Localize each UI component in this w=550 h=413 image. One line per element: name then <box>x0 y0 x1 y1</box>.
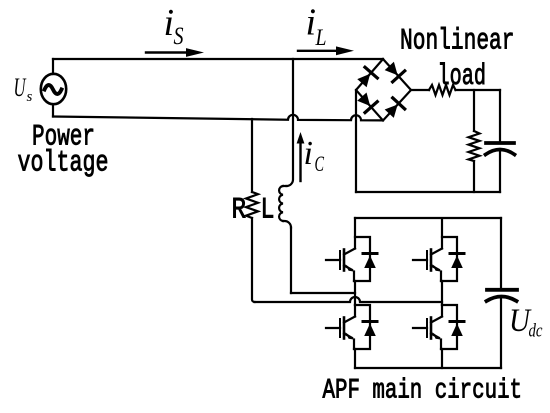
resistor load R <box>469 131 480 161</box>
capacitor Udc <box>487 290 518 368</box>
IGBT V1 (upper-left) <box>326 218 355 281</box>
wire right leg mid <box>441 281 443 305</box>
svg-text:S: S <box>174 23 184 50</box>
arrow iC <box>297 132 305 181</box>
diode V2 antiparallel <box>441 237 464 281</box>
wire load cap top <box>499 90 501 142</box>
diode V1 antiparallel <box>354 237 377 281</box>
svg-text:APF main circuit: APF main circuit <box>323 376 523 407</box>
svg-text:Nonlinear: Nonlinear <box>400 25 515 59</box>
svg-text:U: U <box>14 73 27 102</box>
inductor L <box>279 186 291 228</box>
label Udc <box>509 303 543 342</box>
wire bridge DC top rail <box>355 217 501 219</box>
wire left leg mid <box>354 281 356 305</box>
diode V4 antiparallel <box>441 305 464 349</box>
wire R branch top <box>251 119 253 192</box>
svg-text:i: i <box>164 2 175 44</box>
wire R branch down <box>252 218 255 302</box>
svg-text:L: L <box>315 25 327 51</box>
wire bridge left vertex to load bottom rail <box>355 90 357 192</box>
IGBT V4 (lower-right) <box>413 305 442 349</box>
wire load R branch bottom <box>473 161 475 192</box>
capacitor load C <box>486 143 515 192</box>
label Nonlinear load <box>400 25 515 94</box>
wire source bottom stub <box>52 104 54 116</box>
wire load bottom rail <box>356 191 500 193</box>
wire L branch down <box>290 228 292 294</box>
resistor series (load) <box>429 85 456 95</box>
IGBT V2 (upper-right) <box>413 219 442 281</box>
wire source top stub <box>52 59 54 74</box>
wire right leg bottom <box>441 349 443 368</box>
wire load R branch top <box>473 90 475 131</box>
svg-text:L: L <box>261 194 275 228</box>
label Us <box>14 73 33 105</box>
wire left leg bottom <box>354 349 356 368</box>
svg-text:s: s <box>27 89 33 105</box>
arrow iS <box>146 48 204 57</box>
wire PCC vertical (iC branch) <box>287 59 294 186</box>
wire bridge right vertex to series resistor <box>411 89 429 91</box>
svg-text:C: C <box>315 151 325 176</box>
diode bridge outline <box>356 59 411 121</box>
wire bottom (neutral) with hops <box>53 115 383 121</box>
label iS <box>164 2 184 50</box>
wire L to left leg midpoint <box>291 292 355 294</box>
wire to load corner <box>456 89 501 91</box>
svg-text:R: R <box>232 194 247 228</box>
resistor R <box>246 192 258 218</box>
wire DC cap top <box>500 218 502 289</box>
wire bridge DC bottom rail <box>355 367 501 369</box>
wire top (live) <box>53 58 383 60</box>
svg-text:dc: dc <box>529 321 543 342</box>
IGBT V3 (lower-left) <box>326 305 355 349</box>
bridge diode D3 (lower-left edge) <box>356 91 378 112</box>
svg-text:i: i <box>304 135 313 172</box>
label iL <box>306 2 327 52</box>
AC source Us <box>41 74 66 104</box>
label iC <box>304 135 325 176</box>
svg-text:i: i <box>306 2 317 44</box>
bridge diode D1 (upper-left edge) <box>356 67 378 88</box>
diode V3 antiparallel <box>354 305 377 349</box>
svg-text:voltage: voltage <box>18 147 109 181</box>
label Power voltage <box>18 121 109 181</box>
arrow iL <box>298 46 354 55</box>
wire R to right leg midpoint with hop <box>255 297 443 302</box>
bridge diode D4 (lower-right edge) <box>383 98 405 119</box>
bridge diode D2 (upper-right edge) <box>383 60 405 81</box>
